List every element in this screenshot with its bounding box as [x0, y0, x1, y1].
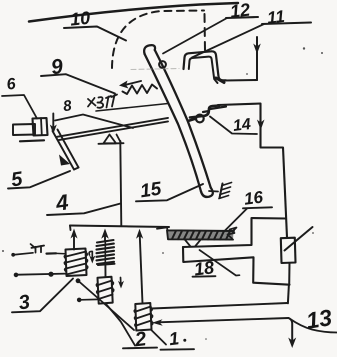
step wire to box — [218, 104, 287, 238]
strip 5 — [53, 130, 79, 170]
svg-text:14: 14 — [232, 116, 252, 135]
leader line 1 — [151, 330, 194, 350]
leader line 6 — [2, 95, 37, 119]
label 5 — [10, 168, 25, 191]
svg-text:15: 15 — [139, 178, 163, 202]
svg-text:1: 1 — [168, 328, 180, 349]
upper link rod — [96, 104, 168, 112]
wire bus horizontal — [70, 226, 169, 228]
channel outline — [183, 218, 290, 285]
wire 4 vertical — [120, 141, 121, 226]
leader line 9 — [41, 74, 115, 93]
spring 7 vertical — [97, 229, 115, 278]
contact terminal lower — [14, 272, 66, 278]
svg-text:6: 6 — [6, 76, 17, 94]
adjuster scribbles — [88, 95, 117, 108]
leader line 8 — [55, 115, 133, 129]
label 14 — [232, 116, 252, 135]
spring 9 zigzag — [123, 85, 158, 95]
bar 8 double line — [57, 118, 168, 140]
label 9 — [50, 55, 65, 79]
coil 2 middle — [96, 277, 113, 304]
leader line 15 — [136, 184, 203, 201]
label 16 — [243, 188, 265, 209]
ground hatch at lever bottom — [209, 183, 232, 199]
svg-text:13: 13 — [304, 304, 334, 334]
label 11 — [266, 7, 286, 28]
leader line 12 — [163, 17, 258, 54]
label 2 — [133, 328, 148, 351]
lever 15 body — [144, 45, 213, 197]
wire branch to coil 1 with up arrow — [136, 229, 143, 304]
bracket clamp 12 — [184, 51, 227, 83]
leader line 5 — [8, 171, 70, 189]
wire top long line — [29, 3, 238, 22]
label 1 — [168, 328, 180, 349]
pivot eye on lever middle — [188, 115, 204, 123]
wire junction to coil 1 — [79, 282, 134, 331]
dashed trajectory arc 10 — [112, 11, 204, 69]
clamp box 6 — [33, 118, 48, 136]
under tick — [20, 140, 44, 141]
label 15 — [139, 178, 163, 202]
armature bar plunger — [13, 124, 35, 135]
terminal dot to coil 2 — [77, 298, 99, 303]
label 4 — [53, 189, 70, 216]
hook arrow beside spring — [89, 251, 95, 263]
svg-text:16: 16 — [243, 188, 265, 209]
dashed vertical segment — [204, 14, 207, 51]
label 18 — [193, 257, 215, 279]
svg-text:4: 4 — [53, 189, 70, 216]
arrow left on lower wire — [152, 319, 163, 325]
leader line 16 — [224, 207, 272, 231]
arrow down at bar end — [50, 114, 57, 135]
coil 1 right — [134, 303, 153, 331]
junction dot coil 3 bottom — [76, 278, 81, 283]
leader line 14 — [210, 117, 257, 135]
link Z to step wire 14 — [190, 106, 226, 118]
leader line 3 — [12, 279, 73, 313]
pivot ring on lever top — [159, 61, 166, 68]
label 3 — [17, 291, 31, 314]
svg-text:8: 8 — [62, 97, 73, 115]
wire lower end arrow 13 — [288, 318, 296, 348]
swoosh to label 13 — [290, 319, 337, 333]
leader line 11 — [192, 23, 311, 58]
wire from bracket to arrow 14 feed — [225, 37, 257, 81]
label 13 — [304, 304, 334, 334]
fulcrum triangle — [99, 135, 124, 144]
arrow down on bracket wire — [253, 44, 261, 55]
coil 3 — [64, 249, 87, 277]
noise specks — [2, 47, 323, 340]
plate end squiggle — [228, 228, 237, 239]
wire branch to coil 3 with up arrow — [70, 226, 78, 250]
pedestal notch — [185, 240, 201, 247]
contact terminal upper — [11, 253, 33, 257]
label 6 — [6, 76, 17, 94]
contact plate 16 — [157, 227, 234, 239]
label 12 — [229, 0, 251, 22]
relay box 13 — [281, 227, 313, 303]
leader line 18 — [193, 250, 240, 277]
wire pair to box — [152, 303, 289, 322]
arrow down on step wire — [257, 120, 265, 131]
leader line 10 — [64, 27, 126, 41]
breaker switch symbol — [31, 244, 66, 254]
label 8 — [62, 97, 73, 115]
force arrow left — [119, 81, 141, 89]
scan streak — [131, 69, 179, 70]
leader line 2 — [106, 304, 158, 349]
leader line 4 — [47, 204, 121, 216]
arrow down beside coil 2 — [118, 278, 124, 289]
label 10 — [69, 8, 91, 30]
